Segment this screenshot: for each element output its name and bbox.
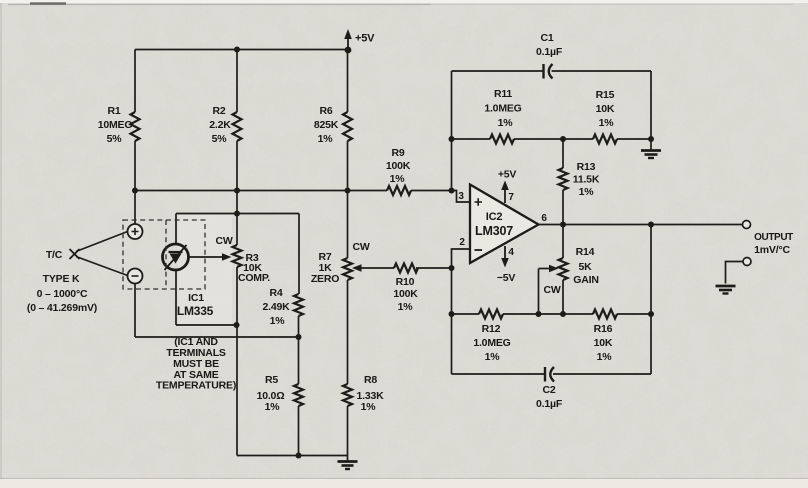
wire R11 row left — [452, 138, 491, 140]
svg-text:2.49K: 2.49K — [262, 301, 290, 313]
resistor R6 — [343, 112, 352, 141]
svg-text:1%: 1% — [270, 315, 286, 327]
svg-text:1%: 1% — [579, 186, 595, 198]
wire thermocouple plus lead — [76, 232, 128, 252]
ground below R8 — [347, 456, 349, 462]
svg-text:2.2K: 2.2K — [209, 119, 231, 131]
junction node row R6/R7 — [345, 188, 351, 194]
svg-text:+5V: +5V — [498, 169, 517, 181]
svg-text:10K: 10K — [596, 103, 615, 115]
svg-text:1mV/°C: 1mV/°C — [754, 244, 790, 256]
junction R3/IC1 anode — [234, 322, 240, 328]
junction R4/R5 node — [296, 334, 302, 340]
wire C1 top row left — [452, 70, 544, 72]
wire output right vertical — [650, 225, 652, 375]
wire node row right — [411, 190, 452, 192]
op-amp U1 power pin 4 arrow — [504, 246, 506, 262]
svg-text:100K: 100K — [386, 160, 411, 172]
svg-text:5%: 5% — [107, 133, 123, 145]
svg-text:10K: 10K — [594, 337, 613, 349]
resistor R4 — [294, 294, 303, 316]
wire top +5V rail — [135, 49, 348, 51]
wire R4 bottom lead — [298, 316, 300, 337]
svg-text:LM307: LM307 — [475, 224, 513, 238]
svg-text:C1: C1 — [540, 32, 553, 44]
op-amp U1 power pin 7 arrow — [504, 185, 506, 203]
power +5V top arrow — [347, 37, 349, 50]
left scan edge — [0, 3, 2, 483]
wire R16 right lead — [617, 313, 651, 315]
wire R6 column lower — [347, 141, 349, 191]
svg-text:0.1µF: 0.1µF — [536, 46, 563, 58]
svg-text:TEMPERATURE): TEMPERATURE) — [156, 380, 236, 392]
svg-text:1%: 1% — [398, 301, 414, 313]
svg-text:10MEG: 10MEG — [98, 119, 133, 131]
wire inverting node column — [451, 268, 453, 314]
wire R14 wiper down — [538, 269, 540, 315]
wire bottom ground rail — [237, 455, 348, 457]
svg-text:1%: 1% — [485, 351, 501, 363]
svg-text:COMP.: COMP. — [238, 272, 270, 284]
svg-text:11.5K: 11.5K — [573, 174, 600, 186]
svg-text:1%: 1% — [265, 401, 281, 413]
junction R15/ground — [648, 136, 654, 142]
svg-text:R16: R16 — [594, 323, 613, 335]
svg-text:CW: CW — [215, 235, 232, 247]
svg-text:5K: 5K — [578, 261, 592, 273]
wire C1 right vertical — [650, 71, 652, 139]
svg-text:TYPE K: TYPE K — [43, 273, 80, 285]
resistor R9 — [387, 186, 411, 195]
wire R2 column upper — [236, 50, 238, 113]
svg-text:R12: R12 — [482, 323, 501, 335]
wire R1 column lower — [134, 141, 136, 224]
wire minus terminal row — [135, 284, 299, 338]
thermocouple junction T/C — [70, 249, 80, 259]
svg-text:1.0MEG: 1.0MEG — [473, 337, 510, 349]
top scan border line — [8, 4, 430, 6]
svg-text:R5: R5 — [265, 374, 278, 386]
svg-text:GAIN: GAIN — [573, 274, 598, 286]
wire R3 column to ground rail — [236, 267, 238, 456]
resistor R5 — [294, 384, 303, 406]
wire R6 column upper — [347, 50, 349, 113]
wire C1 top row right — [552, 70, 652, 72]
wire op-amp pin 3 lead — [452, 191, 471, 203]
potentiometer R14 — [559, 258, 568, 280]
op-amp IC2 triangle — [470, 185, 539, 264]
wire output row — [539, 224, 743, 226]
junction R12 row left — [449, 311, 455, 317]
junction output/R13/R14 — [560, 222, 566, 228]
svg-text:4: 4 — [508, 247, 514, 258]
svg-text:1%: 1% — [599, 117, 615, 129]
svg-text:OUTPUT: OUTPUT — [754, 232, 793, 243]
wire R10 to pin2 node — [416, 267, 452, 269]
svg-text:825K: 825K — [314, 119, 339, 131]
wire R14 bottom lead — [562, 280, 564, 314]
svg-text:R2: R2 — [212, 105, 225, 117]
wire R12 to R16 — [503, 313, 593, 315]
svg-text:5%: 5% — [212, 133, 228, 145]
wire R13 top lead — [562, 139, 564, 168]
potentiometer R3 — [233, 245, 242, 267]
wire R14 wiper arrow — [539, 268, 555, 270]
svg-text:1%: 1% — [361, 401, 377, 413]
wire IC1 anode lead — [176, 270, 237, 326]
svg-text:R9: R9 — [391, 147, 404, 159]
svg-text:7: 7 — [508, 192, 514, 203]
wire op-amp pin 2 lead — [452, 249, 471, 268]
IC1 LM335 sensor — [163, 244, 189, 270]
ground output terminal — [716, 285, 736, 288]
resistor R15 — [593, 135, 617, 144]
svg-text:ZERO: ZERO — [311, 273, 339, 285]
wire R4 top lead — [298, 214, 300, 295]
junction node row R1 — [132, 188, 138, 194]
svg-text:+5V: +5V — [355, 33, 375, 45]
wire C1 left vertical — [451, 71, 453, 191]
terminal plus post — [128, 224, 143, 239]
svg-text:R10: R10 — [396, 276, 415, 288]
svg-text:0 – 1000°C: 0 – 1000°C — [37, 288, 88, 300]
junction R10/pin2 — [449, 265, 455, 271]
wire R13 bottom lead — [562, 190, 564, 225]
svg-text:1%: 1% — [390, 173, 406, 185]
wire node row left — [135, 190, 387, 192]
wire R8 bottom lead — [347, 406, 349, 456]
svg-text:1%: 1% — [318, 133, 334, 145]
svg-text:R13: R13 — [577, 161, 596, 173]
svg-text:R6: R6 — [319, 105, 332, 117]
junction R16 right — [648, 311, 654, 317]
wire R1 column upper — [134, 50, 136, 113]
svg-text:IC1: IC1 — [188, 292, 204, 304]
capacitor C2 — [544, 367, 546, 382]
wire ground terminal lead — [726, 262, 744, 284]
junction R14 wiper bottom — [536, 311, 542, 317]
resistor R2 — [233, 112, 242, 141]
svg-text:100K: 100K — [393, 288, 418, 300]
junction R2/R3/R4/IC1 node — [234, 211, 240, 217]
svg-text:CW: CW — [352, 241, 369, 253]
light panel behind IC1 — [178, 215, 232, 327]
resistor R10 — [394, 264, 418, 273]
wire R7 to R8 — [347, 280, 349, 384]
wire R12 row — [452, 313, 480, 315]
svg-text:R15: R15 — [596, 89, 615, 101]
wire C2 row left — [452, 373, 546, 375]
junction node row R2 — [234, 188, 240, 194]
junction bottom rail R5 — [296, 453, 302, 459]
resistor R11 — [490, 135, 514, 144]
svg-text:−5V: −5V — [497, 272, 516, 284]
svg-text:1.0MEG: 1.0MEG — [484, 103, 521, 115]
svg-text:IC2: IC2 — [486, 211, 503, 223]
dashed divider terminals/IC1 — [165, 220, 167, 289]
svg-text:2: 2 — [459, 237, 465, 248]
svg-text:CW: CW — [543, 284, 560, 296]
wire R7 wiper arrow — [356, 267, 394, 269]
resistor R16 — [593, 310, 617, 319]
capacitor C1 — [542, 64, 544, 79]
ground terminal circle — [743, 258, 751, 266]
junction R14 bottom — [560, 311, 566, 317]
wire R3 wiper arrow — [189, 256, 226, 258]
terminal minus post — [128, 269, 143, 284]
resistor R12 — [479, 310, 503, 319]
resistor R8 — [343, 384, 352, 406]
dashed isothermal box — [123, 220, 205, 289]
wire thermocouple minus lead — [76, 257, 128, 276]
svg-text:R4: R4 — [269, 287, 282, 299]
svg-text:C2: C2 — [542, 384, 555, 396]
junction R11/R15/R13 — [560, 136, 566, 142]
junction node top rail +5V — [345, 47, 352, 54]
svg-text:3: 3 — [458, 191, 464, 202]
svg-text:R1: R1 — [107, 105, 120, 117]
svg-text:(0 – 41.269mV): (0 – 41.269mV) — [27, 302, 97, 314]
junction node row pin3 — [449, 188, 455, 194]
svg-text:1%: 1% — [498, 117, 514, 129]
svg-text:1%: 1% — [597, 351, 613, 363]
wire R2 column lower — [236, 141, 238, 214]
wire R5 top lead — [298, 337, 300, 384]
output terminal — [743, 221, 751, 229]
wire IC1 cathode lead — [175, 214, 177, 245]
junction output right — [648, 222, 654, 228]
ground below R15 — [650, 139, 652, 150]
wire R3 column upper — [236, 214, 238, 246]
bottom light strip — [0, 479, 808, 488]
wire R15 right lead — [617, 138, 651, 140]
bottom scan border line — [0, 478, 808, 480]
svg-text:R11: R11 — [494, 88, 512, 100]
wire R11 to R15 — [514, 138, 593, 140]
resistor R1 — [131, 112, 140, 141]
svg-text:R8: R8 — [364, 374, 377, 386]
svg-text:LM335: LM335 — [177, 304, 214, 318]
junction R11 row left — [449, 136, 455, 142]
svg-text:6: 6 — [541, 213, 547, 224]
potentiometer R7 — [343, 258, 352, 280]
wire R2/R3 node row — [176, 213, 299, 215]
wire R14 top lead — [562, 225, 564, 259]
svg-text:R14: R14 — [576, 246, 595, 258]
wire C2 row right — [553, 373, 651, 375]
svg-text:0.1µF: 0.1µF — [536, 398, 563, 410]
junction node top rail R2 — [234, 47, 240, 53]
wire R7 top lead — [347, 191, 349, 259]
wire R5 bottom lead — [298, 406, 300, 456]
svg-text:T/C: T/C — [46, 249, 63, 261]
top white edge strip — [0, 0, 808, 3]
wire C2 left vertical — [451, 314, 453, 374]
resistor R13 — [559, 168, 568, 190]
